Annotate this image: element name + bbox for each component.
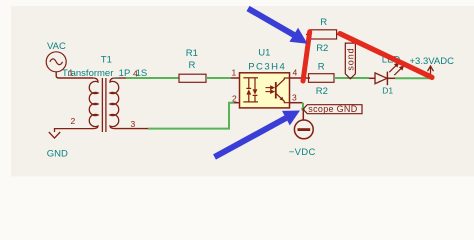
U1 pin 4 — [290, 77, 311, 79]
red annotation line left — [303, 32, 310, 81]
U1 pin 1 — [231, 77, 240, 79]
power symbol -VDC — [294, 109, 313, 139]
power symbol +3.3VADC — [428, 66, 434, 78]
svg-text:1: 1 — [69, 67, 74, 77]
svg-text:R2: R2 — [316, 43, 328, 54]
U1 pin 3 — [290, 102, 303, 104]
svg-text:U1: U1 — [258, 48, 270, 59]
wire T1 pin4 to R1 — [126, 77, 179, 79]
svg-text:R: R — [318, 62, 325, 73]
svg-text:4: 4 — [293, 68, 298, 78]
svg-text:3: 3 — [131, 119, 136, 129]
svg-text:T1: T1 — [101, 55, 112, 66]
U1 pin 2 — [234, 102, 240, 104]
canvas background — [0, 0, 474, 185]
wire R2 to D1 — [334, 77, 369, 79]
svg-text:1: 1 — [232, 68, 237, 78]
svg-text:sond: sond — [346, 47, 356, 70]
ground — [49, 132, 60, 138]
transformer core — [101, 78, 103, 132]
wire D1 to +3.3VADC — [395, 77, 434, 79]
U1 input diode pair rails — [243, 78, 258, 102]
U1 light arrows — [266, 86, 274, 93]
T1 pin 4 line — [115, 77, 126, 79]
svg-text:R: R — [189, 60, 196, 71]
resistor R1 — [179, 74, 206, 82]
wire R1 to U1 pin1 — [206, 77, 231, 79]
svg-text:+3.3VADC: +3.3VADC — [410, 56, 455, 67]
blue annotation arrow 2 — [215, 111, 301, 158]
svg-text:4: 4 — [133, 68, 138, 78]
resistor R2 (on wire) — [309, 74, 335, 83]
wire T1 pin3 to U1 pin2 — [148, 103, 234, 129]
U1 input LED diode down — [253, 89, 258, 95]
resistor R2 (annotated position) — [306, 30, 341, 39]
svg-text:R1: R1 — [186, 48, 198, 59]
U1 input LED diode up — [246, 88, 251, 94]
junction scope GND node — [301, 107, 305, 111]
svg-text:scope GND: scope GND — [308, 104, 357, 114]
T1 pin 2 line to GND — [55, 129, 94, 132]
red annotation line right — [340, 34, 432, 78]
svg-text:2: 2 — [71, 116, 76, 126]
D1 emission arrows — [389, 63, 403, 75]
svg-text:D1: D1 — [382, 86, 393, 96]
svg-text:R2: R2 — [316, 86, 328, 97]
wire VAC to T1 pin1 — [56, 72, 93, 78]
svg-text:VAC: VAC — [47, 41, 66, 52]
blue annotation arrow 1 — [248, 9, 308, 44]
transformer T1 primary winding — [89, 78, 98, 129]
T1 pin 3 line — [115, 128, 148, 130]
svg-text:GND: GND — [47, 148, 68, 159]
diode D1 — [369, 72, 395, 86]
wire U1 pin3 down to junction — [302, 103, 304, 109]
svg-text:PC3H4: PC3H4 — [248, 61, 286, 72]
U1 phototransistor — [276, 78, 290, 103]
VAC power symbol — [46, 52, 66, 72]
optocoupler U1 body — [240, 73, 290, 108]
global label sond — [345, 43, 355, 79]
svg-text:R: R — [320, 17, 327, 28]
global label scope GND — [303, 105, 362, 114]
transformer T1 secondary winding — [110, 78, 119, 129]
svg-text:3: 3 — [292, 93, 297, 103]
svg-text:−VDC: −VDC — [289, 147, 316, 158]
